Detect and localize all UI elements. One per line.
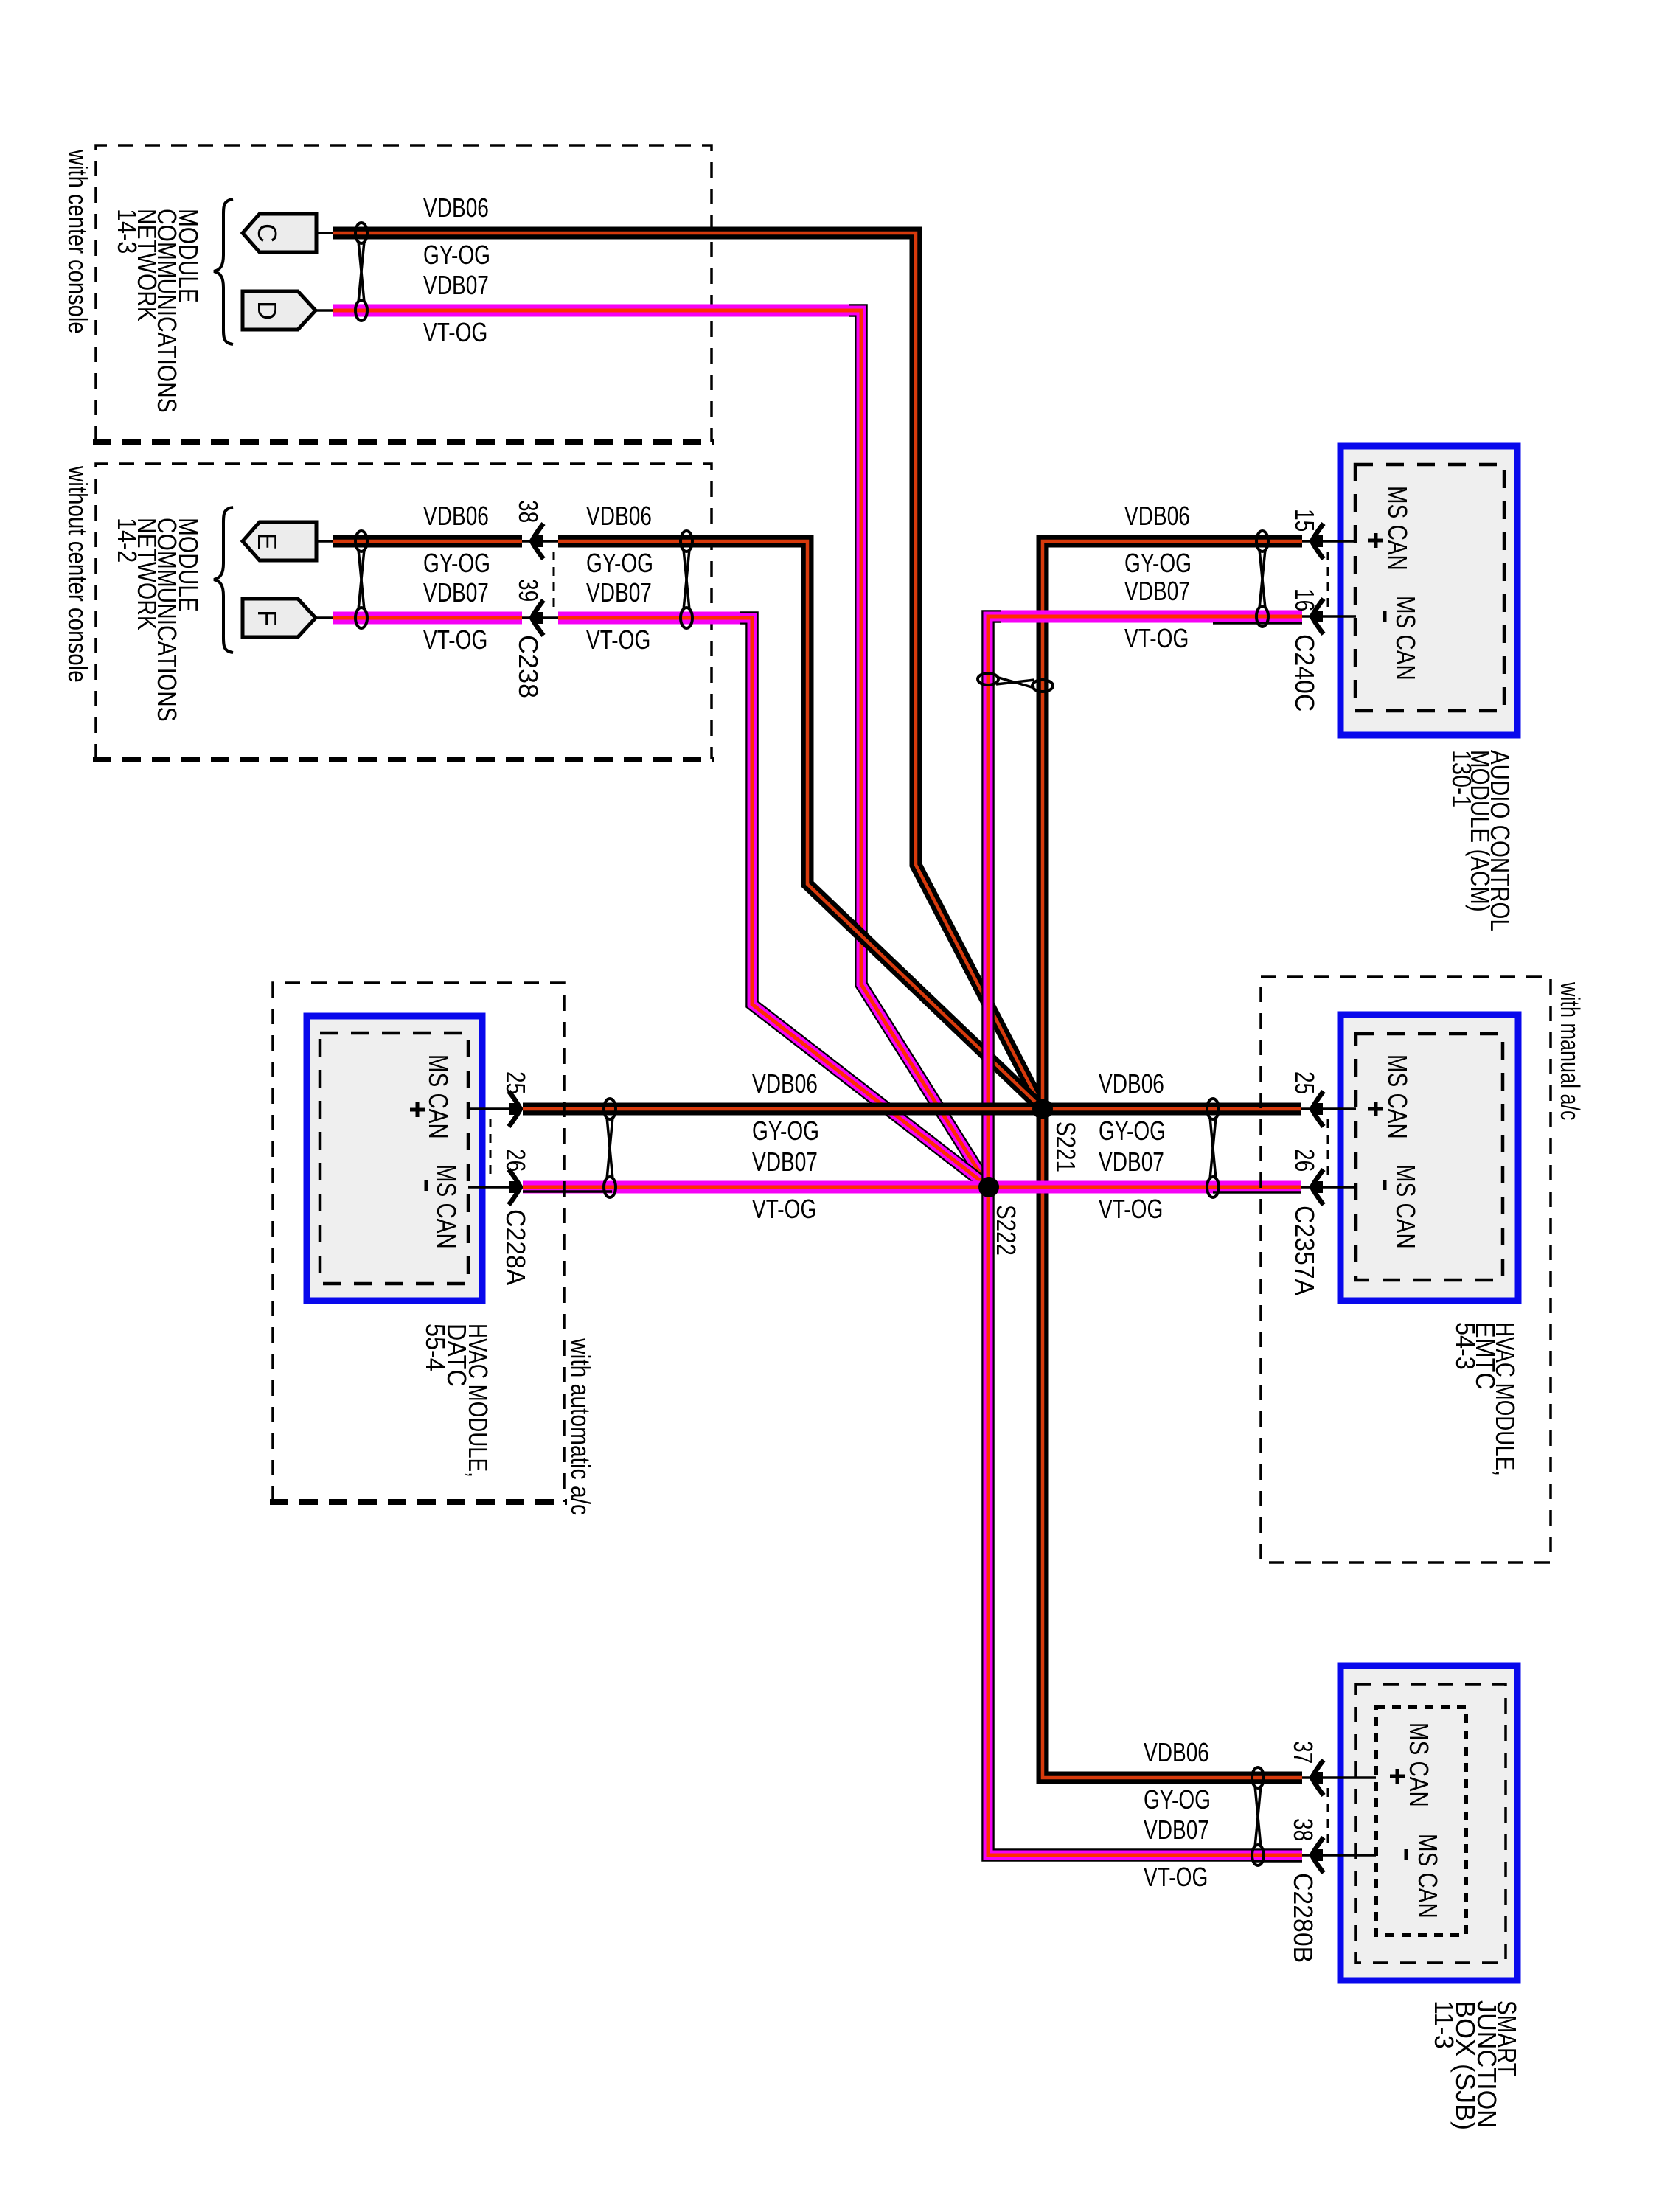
- twisted pair SJB pair: [1252, 1767, 1264, 1865]
- brace E/F: [214, 507, 233, 653]
- connector arrow DATC pin 26: [509, 1169, 521, 1205]
- svg-text:54-3: 54-3: [1450, 1322, 1480, 1370]
- svg-text:VDB07: VDB07: [423, 578, 489, 608]
- connector arrow SJB pin 38: [1312, 1837, 1324, 1873]
- svg-text:14-2: 14-2: [111, 518, 141, 563]
- splice S222: [978, 1177, 999, 1197]
- svg-text:D: D: [252, 301, 282, 320]
- svg-text:VDB06: VDB06: [586, 501, 652, 531]
- wire VDB07 VT-OG from C238 to S222: [740, 618, 989, 1187]
- option box bottom edge (bold): [270, 1499, 567, 1505]
- svg-text:38: 38: [513, 500, 543, 523]
- connector E: [243, 522, 316, 560]
- pin lead SJB 37: [1302, 1776, 1376, 1779]
- svg-text:GY-OG: GY-OG: [752, 1116, 819, 1146]
- svg-text:25: 25: [501, 1071, 530, 1094]
- wire VDB06 GY-OG from C to S221: [333, 233, 1043, 1109]
- svg-text:C2357A: C2357A: [1290, 1206, 1319, 1296]
- pin lead DATC 25: [468, 1107, 523, 1110]
- svg-text:VT-OG: VT-OG: [1144, 1863, 1208, 1892]
- svg-text:GY-OG: GY-OG: [423, 549, 490, 578]
- svg-text:15: 15: [1290, 509, 1319, 532]
- svg-text:C: C: [252, 223, 282, 243]
- svg-text:VDB07: VDB07: [1099, 1147, 1164, 1177]
- svg-text:MS CAN: MS CAN: [1404, 1722, 1433, 1807]
- option box bottom edge (bold): [93, 439, 714, 445]
- splice S221: [1032, 1099, 1053, 1119]
- option box: with automatic a/c: [273, 983, 564, 1502]
- connector C238 bracket: [553, 552, 555, 612]
- svg-text:130-1: 130-1: [1446, 750, 1475, 807]
- trailing lead at ACM pin 16: [1213, 622, 1302, 625]
- svg-text:MS CAN: MS CAN: [1391, 596, 1420, 681]
- trailing lead at EMTC pin 26: [1213, 1191, 1301, 1194]
- svg-text:VDB07: VDB07: [1124, 577, 1190, 606]
- pin lead E: [316, 540, 333, 543]
- svg-text:VT-OG: VT-OG: [423, 625, 487, 655]
- SJB inner dashed box: [1376, 1707, 1466, 1935]
- label HVAC MODULE EMTC 54-3: [1450, 1322, 1520, 1476]
- connector arrow C238 pin 38: [532, 524, 543, 559]
- pin lead SJB 38: [1302, 1854, 1376, 1857]
- svg-text:VT-OG: VT-OG: [752, 1194, 816, 1224]
- option box bottom edge (bold): [93, 757, 714, 762]
- svg-text:C238: C238: [513, 635, 543, 698]
- twisted pair bus pair right: [1207, 1099, 1219, 1197]
- connector arrow EMTC pin 25: [1312, 1091, 1324, 1127]
- label AUDIO CONTROL MODULE (ACM) 130-1: [1446, 750, 1514, 931]
- label: MODULE COMMUNICATIONS NETWORK 14-3: [111, 209, 202, 413]
- wire VDB07 VT-OG from C238 (horizontal): [558, 612, 746, 625]
- svg-text:39: 39: [513, 579, 543, 602]
- svg-text:with center console: with center console: [63, 149, 93, 333]
- svg-text:S221: S221: [1051, 1121, 1080, 1172]
- pin lead DATC 26: [468, 1186, 523, 1189]
- svg-text:VDB06: VDB06: [1099, 1069, 1164, 1099]
- pin lead C: [316, 232, 333, 234]
- wire VDB06 GY-OG from E to C238: [333, 535, 522, 548]
- connector C2357A bracket: [1327, 1119, 1329, 1178]
- connector F: [243, 599, 316, 637]
- svg-text:37: 37: [1288, 1741, 1318, 1764]
- connector C2280B bracket: [1327, 1788, 1329, 1846]
- module SMART JUNCTION BOX (SJB): [1340, 1666, 1517, 1980]
- pin lead into C238 pin 38: [522, 540, 558, 543]
- twisted pair trunk verticals: [978, 673, 1053, 692]
- svg-text:GY-OG: GY-OG: [1144, 1785, 1211, 1815]
- label HVAC MODULE DATC 55-4: [420, 1324, 493, 1478]
- svg-text:F: F: [252, 610, 282, 626]
- pin lead D: [316, 309, 333, 312]
- svg-text:VT-OG: VT-OG: [586, 625, 650, 655]
- svg-text:with manual a/c: with manual a/c: [1555, 981, 1585, 1120]
- svg-text:MS CAN: MS CAN: [1382, 1054, 1412, 1139]
- svg-text:GY-OG: GY-OG: [1099, 1116, 1166, 1146]
- svg-text:MS CAN: MS CAN: [423, 1054, 453, 1139]
- svg-text:16: 16: [1290, 588, 1319, 611]
- svg-text:25: 25: [1290, 1071, 1319, 1094]
- label: MODULE COMMUNICATIONS NETWORK 14-2: [111, 518, 202, 722]
- twisted pair bus pair left: [604, 1099, 616, 1197]
- wire VDB07 VT-OG ACM pin16 (horizontal): [994, 611, 1302, 623]
- svg-text:VDB07: VDB07: [1144, 1815, 1209, 1845]
- connector arrow EMTC pin 26: [1312, 1169, 1324, 1205]
- svg-text:26: 26: [1290, 1149, 1319, 1172]
- svg-text:MS CAN: MS CAN: [431, 1164, 461, 1249]
- wire VDB06 GY-OG trunk ACM pin15 to SJB pin37: [1043, 541, 1302, 1778]
- connector arrow ACM pin 15: [1312, 524, 1324, 559]
- module AUDIO CONTROL MODULE (ACM): [1340, 446, 1517, 735]
- svg-text:MS CAN: MS CAN: [1391, 1164, 1420, 1249]
- svg-text:GY-OG: GY-OG: [1124, 549, 1192, 578]
- svg-text:14-3: 14-3: [111, 209, 141, 254]
- option box: with manual a/c: [1261, 977, 1551, 1562]
- wire VDB06 GY-OG from C238 to S221: [558, 541, 1043, 1109]
- connector arrow DATC pin 25: [509, 1091, 521, 1127]
- pin lead EMTC 25: [1301, 1107, 1356, 1110]
- svg-text:VDB06: VDB06: [423, 501, 489, 531]
- pin lead EMTC 26: [1301, 1186, 1356, 1189]
- svg-text:VDB07: VDB07: [752, 1147, 818, 1177]
- option box: with center console: [96, 145, 712, 442]
- twisted pair E/F pair: [355, 531, 367, 628]
- pin lead ACM 16: [1302, 615, 1356, 618]
- svg-text:C240C: C240C: [1290, 634, 1319, 712]
- svg-text:38: 38: [1288, 1818, 1318, 1841]
- svg-text:26: 26: [501, 1149, 530, 1172]
- svg-text:MS CAN: MS CAN: [1382, 486, 1412, 571]
- svg-text:VT-OG: VT-OG: [1124, 624, 1189, 653]
- pin lead into C238 pin 39: [522, 616, 558, 619]
- svg-text:C2280B: C2280B: [1288, 1873, 1318, 1963]
- svg-text:VDB06: VDB06: [1144, 1738, 1209, 1767]
- connector D: [243, 291, 316, 330]
- svg-text:VT-OG: VT-OG: [1099, 1194, 1163, 1224]
- wire VDB07 VT-OG from D (horizontal): [333, 305, 855, 317]
- svg-text:VDB06: VDB06: [423, 193, 489, 223]
- trailing lead at DATC pin 26: [523, 1190, 612, 1193]
- twisted pair E/F pair at C238: [681, 531, 692, 628]
- svg-text:MS CAN: MS CAN: [1413, 1834, 1442, 1919]
- svg-text:S222: S222: [991, 1205, 1020, 1256]
- svg-text:VT-OG: VT-OG: [423, 318, 487, 347]
- connector C: [243, 214, 316, 252]
- svg-text:VDB06: VDB06: [1124, 501, 1190, 531]
- connector arrow C238 pin 39: [532, 600, 543, 636]
- svg-text:55-4: 55-4: [420, 1324, 450, 1371]
- option box: without center console: [96, 464, 712, 759]
- connector arrow SJB pin 37: [1312, 1760, 1324, 1795]
- brace C/D: [214, 199, 233, 344]
- wire VDB07 VT-OG from D to S222: [849, 310, 989, 1187]
- module HVAC MODULE DATC: [307, 1016, 482, 1301]
- svg-text:VDB07: VDB07: [423, 271, 489, 300]
- twisted pair ACM pair: [1256, 531, 1268, 627]
- svg-text:VDB07: VDB07: [586, 578, 652, 608]
- trailing lead at SJB pin 38: [1253, 1860, 1302, 1863]
- pin lead ACM 15: [1302, 540, 1356, 543]
- twisted pair C/D pair: [355, 223, 367, 321]
- svg-text:11-3: 11-3: [1429, 2000, 1458, 2049]
- pin lead F: [316, 616, 333, 619]
- svg-text:E: E: [252, 532, 282, 550]
- label SMART JUNCTION BOX (SJB) 11-3: [1429, 2000, 1522, 2130]
- wire VDB06 GY-OG bus DATC to EMTC: [523, 1103, 1301, 1116]
- svg-text:without center console: without center console: [63, 465, 92, 683]
- svg-text:C228A: C228A: [501, 1209, 530, 1286]
- svg-text:GY-OG: GY-OG: [423, 240, 490, 270]
- connector C240C bracket: [1327, 552, 1329, 611]
- svg-text:with automatic a/c: with automatic a/c: [565, 1338, 594, 1515]
- wire VDB07 VT-OG from F to C238: [333, 612, 522, 625]
- svg-text:VDB06: VDB06: [752, 1069, 818, 1099]
- wire VDB07 VT-OG bus DATC to EMTC: [523, 1181, 1301, 1194]
- svg-text:GY-OG: GY-OG: [586, 549, 653, 578]
- connector arrow ACM pin 16: [1312, 599, 1324, 634]
- connector C228A bracket: [490, 1119, 492, 1178]
- wire VDB07 VT-OG trunk vertical to SJB pin38: [988, 616, 1302, 1855]
- module HVAC MODULE EMTC: [1340, 1015, 1518, 1301]
